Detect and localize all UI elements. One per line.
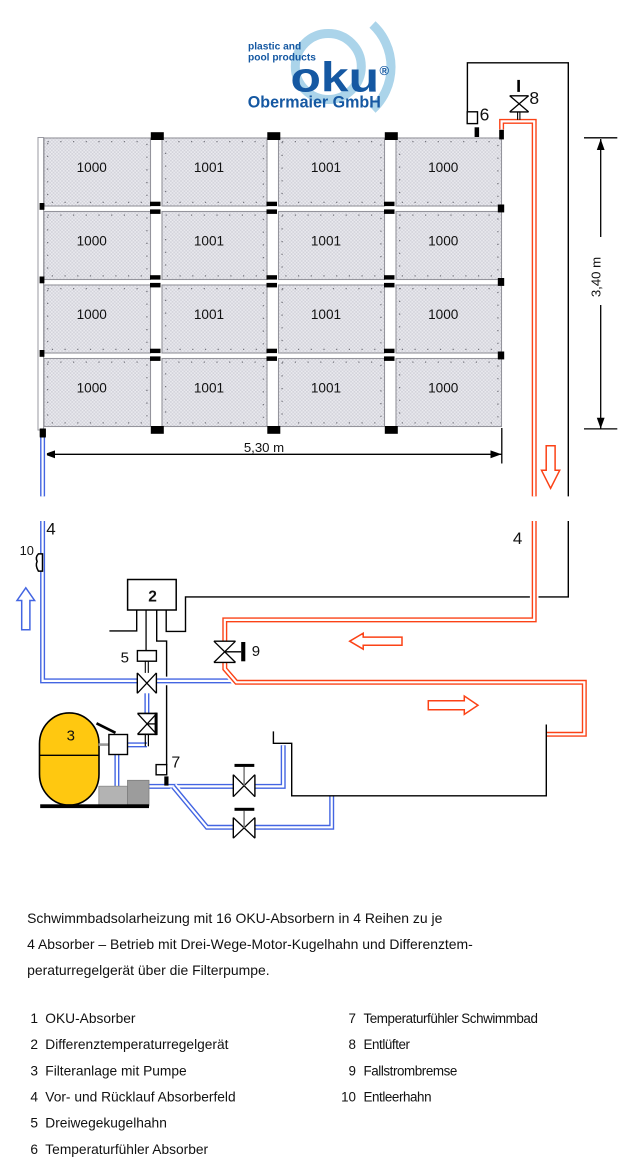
svg-text:Schwimmbadsolarheizung mit 16: Schwimmbadsolarheizung mit 16 OKU-Absorb… (27, 910, 442, 926)
blue pump outlet lower branch to pool floor (173, 786, 332, 827)
svg-text:Vor- und Rücklauf Absorberfeld: Vor- und Rücklauf Absorberfeld (45, 1090, 235, 1105)
absorber panel 1000 row3 col1 (44, 285, 151, 353)
blue pump outlet upper branch to skimmer (149, 745, 283, 786)
svg-text:Filteranlage mit Pumpe: Filteranlage mit Pumpe (45, 1063, 187, 1078)
legend right column (341, 1011, 537, 1104)
valve stem down to blue pipe (145, 734, 148, 746)
pump head block (128, 780, 150, 806)
filter tank 3 (Filteranlage) (40, 713, 100, 805)
svg-text:peraturregelgerät über die Fil: peraturregelgerät über die Filterpumpe. (27, 962, 270, 978)
svg-text:3,40 m: 3,40 m (589, 257, 604, 297)
three-way motor ball valve 5 (Dreiwegekugelhahn) (137, 673, 156, 693)
bottom-left connector block on pipe (40, 429, 46, 438)
three-way valve at filter (138, 713, 158, 736)
svg-text:10: 10 (341, 1090, 356, 1105)
svg-text:1: 1 (30, 1011, 38, 1026)
svg-text:5,30 m: 5,30 m (244, 440, 284, 455)
svg-text:10: 10 (20, 543, 34, 558)
connector stub bottom edge (267, 426, 280, 434)
absorber panel 1001 row3 col2 (162, 285, 267, 353)
left collector manifold strip (38, 138, 44, 431)
controller box 2 (Differenztemperaturregelger&#228;t) (128, 580, 177, 611)
connector stubs at row gap (384, 349, 395, 361)
svg-text:3: 3 (67, 728, 75, 745)
red return pipe: downpipe, across, through brake 9, to pool (225, 521, 585, 734)
blue supply pipe lower left to valve 5 (43, 521, 237, 681)
left manifold connector (40, 350, 45, 357)
svg-text:8: 8 (529, 88, 539, 108)
svg-text:4: 4 (513, 529, 522, 548)
blue supply downpipe (top section) (38, 437, 47, 497)
svg-text:1001: 1001 (194, 160, 224, 175)
svg-text:1000: 1000 (77, 160, 108, 175)
right edge connector (498, 278, 504, 286)
red flow arrow down (542, 446, 560, 489)
svg-text:Temperaturfühler Absorber: Temperaturfühler Absorber (45, 1142, 208, 1157)
connector stubs at row gap (267, 275, 278, 287)
svg-text:Fallstrombremse: Fallstrombremse (364, 1063, 457, 1078)
svg-text:Dreiwegekugelhahn: Dreiwegekugelhahn (45, 1116, 167, 1131)
svg-text:1001: 1001 (311, 381, 341, 396)
connector stubs at row gap (150, 275, 161, 287)
sensor cable from controller to sensor 6 line (166, 521, 568, 631)
svg-text:5: 5 (30, 1116, 38, 1131)
filter multiport valve box (109, 735, 128, 755)
svg-text:plastic and: plastic and (248, 42, 301, 53)
tank to valve connector (99, 743, 110, 746)
motor control line to valve 5 (145, 610, 147, 651)
OKU logo light blue parenthesis (373, 25, 392, 110)
left manifold connector (40, 203, 45, 210)
hand valve upper branch (233, 764, 255, 797)
top-right connector under sensor 6 (475, 127, 480, 137)
red return pipe from absorber top (502, 121, 535, 496)
absorber panel 1001 row4 col2 (162, 359, 267, 427)
svg-text:1000: 1000 (428, 307, 459, 322)
absorber panel 1000 row3 col4 (396, 285, 502, 353)
svg-text:2: 2 (30, 1037, 38, 1052)
right edge connector (498, 352, 504, 360)
svg-text:Entleerhahn: Entleerhahn (364, 1090, 432, 1105)
absorber panel 1000 row1 col1 (44, 138, 151, 206)
temperature sensor 6 box (467, 112, 477, 124)
connector stub top edge (151, 132, 164, 140)
valve 5 stem (145, 661, 148, 673)
svg-text:1000: 1000 (77, 234, 108, 249)
absorber panel 1001 row4 col3 (279, 359, 385, 427)
svg-text:6: 6 (480, 105, 490, 125)
svg-text:9: 9 (349, 1063, 356, 1078)
svg-text:2: 2 (148, 589, 157, 606)
bottom-left connector to blue pipe (40, 429, 46, 438)
absorber panel 1000 row1 col4 (396, 138, 502, 206)
svg-text:6: 6 (30, 1142, 38, 1157)
svg-text:1000: 1000 (77, 307, 108, 322)
vent valve 8 stem to pipe (518, 111, 520, 120)
blue pipe filter valve to 3-way valve (128, 742, 147, 747)
blue flow arrow up (17, 588, 35, 630)
absorber panel 1001 row2 col3 (279, 212, 385, 280)
svg-text:7: 7 (349, 1011, 356, 1026)
svg-text:4: 4 (46, 520, 55, 539)
connector stubs at row gap (267, 202, 278, 214)
dimension 5,30 m (44, 428, 502, 464)
legend left column (30, 1011, 235, 1157)
pump motor block (99, 786, 128, 806)
svg-text:3: 3 (30, 1063, 38, 1078)
absorber panel 1001 row3 col3 (279, 285, 385, 353)
sensor cable to pool sensor 7 (157, 610, 167, 765)
red flow arrow left (350, 633, 402, 649)
connector stubs at row gap (384, 275, 395, 287)
svg-text:OKU-Absorber: OKU-Absorber (45, 1011, 136, 1026)
svg-text:1001: 1001 (194, 381, 224, 396)
caption paragraph (27, 910, 473, 978)
svg-text:Temperaturfühler Schwimmbad: Temperaturfühler Schwimmbad (364, 1011, 538, 1026)
svg-text:4 Absorber – Betrieb mit Drei-: 4 Absorber – Betrieb mit Drei-Wege-Motor… (27, 936, 473, 952)
svg-text:1000: 1000 (428, 381, 459, 396)
svg-text:Obermaier GmbH: Obermaier GmbH (248, 93, 381, 112)
hand valve lower branch (233, 808, 255, 838)
logo text plastic and pool products (248, 42, 316, 64)
svg-text:1001: 1001 (311, 307, 341, 322)
absorber panel 1000 row4 col4 (396, 359, 502, 427)
multiport valve handle (97, 723, 116, 733)
connector stubs at row gap (150, 202, 161, 214)
svg-text:4: 4 (30, 1090, 38, 1105)
svg-text:9: 9 (252, 643, 260, 660)
connector stub top edge (385, 132, 398, 140)
svg-text:Differenztemperaturregelgerät: Differenztemperaturregelgerät (45, 1037, 228, 1052)
OKU logo light blue ring (295, 34, 361, 100)
connector stub bottom edge (385, 426, 398, 434)
connector stub top edge (267, 132, 280, 140)
valve 5 motor actuator box (137, 651, 156, 662)
air vent valve 8 (Entl&#252;fter) (510, 80, 529, 112)
sensor 7 stub (164, 776, 168, 785)
absorber panel 1000 row4 col1 (44, 359, 151, 427)
left manifold connector (40, 277, 45, 284)
connector stubs at row gap (267, 349, 278, 361)
svg-text:1001: 1001 (194, 307, 224, 322)
blue pipe filter valve down to pump (114, 755, 119, 787)
svg-text:1000: 1000 (77, 381, 108, 396)
svg-text:1001: 1001 (311, 160, 341, 175)
absorber panel 1000 row2 col4 (396, 212, 502, 280)
connector stubs at row gap (150, 349, 161, 361)
absorber panel 1001 row1 col3 (279, 138, 385, 206)
svg-text:Entlüfter: Entlüfter (364, 1037, 411, 1052)
svg-text:1001: 1001 (311, 234, 341, 249)
blue pipe valve 5 down to filter valve (143, 692, 152, 714)
absorber panel 1000 row2 col1 (44, 212, 151, 280)
svg-text:8: 8 (349, 1037, 356, 1052)
absorber panel 1001 row2 col2 (162, 212, 267, 280)
drain valve 10 (Entleerhahn) (36, 554, 42, 571)
sensor 6 cable: box6 up, across, down right side (467, 63, 568, 497)
temperature sensor 7 box (156, 765, 167, 775)
svg-text:1000: 1000 (428, 160, 459, 175)
connector stubs at row gap (384, 202, 395, 214)
svg-text:5: 5 (121, 650, 129, 667)
controller mains lead (109, 610, 136, 631)
svg-text:1001: 1001 (194, 234, 224, 249)
svg-text:1000: 1000 (428, 234, 459, 249)
pool outline (Schwimmbad) (273, 725, 546, 796)
dimension 3,40 m (584, 138, 617, 429)
fall-flow brake valve 9 (Fallstrombremse) (214, 641, 245, 662)
red flow arrow right (428, 696, 478, 714)
svg-text:7: 7 (171, 754, 180, 771)
connector stub under red pipe (499, 130, 504, 140)
base plinth (40, 804, 149, 808)
svg-text:®: ® (380, 63, 390, 78)
absorber panel 1001 row1 col2 (162, 138, 267, 206)
right edge connector (498, 205, 504, 213)
connector stub bottom edge (151, 426, 164, 434)
